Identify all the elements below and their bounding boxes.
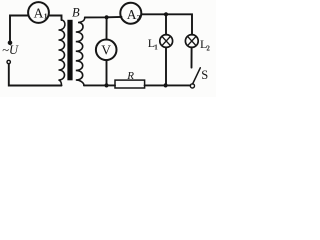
label L1 (148, 36, 159, 51)
label A1 (34, 6, 48, 21)
svg-text:B: B (72, 6, 80, 20)
wire lamp L1 lower lead (165, 47, 167, 85)
wire bottom middle segment from secondary to resistor (84, 84, 115, 86)
transformer primary winding (59, 20, 65, 85)
switch S pivot (190, 84, 194, 88)
voltmeter V (96, 40, 117, 61)
terminal source top (8, 41, 11, 44)
transformer secondary winding (76, 17, 85, 85)
wire lamp L1 upper lead (165, 14, 167, 35)
wire A2 right to corner and down to L2 (141, 14, 192, 35)
wire voltmeter branch lower (106, 60, 108, 85)
svg-text:2: 2 (206, 44, 210, 52)
svg-text:A: A (127, 7, 137, 22)
switch S blade (193, 68, 201, 84)
wire voltmeter branch upper (106, 17, 108, 39)
wire top-left corner from source up and right to A1 (10, 16, 29, 43)
resistor R (115, 80, 145, 88)
lamp L1 (160, 35, 173, 48)
ammeter A1 (28, 2, 49, 23)
node voltmeter-bottom junction (104, 83, 108, 87)
wire A1 to primary top (49, 16, 62, 21)
svg-text:1: 1 (154, 43, 158, 51)
svg-text:2: 2 (137, 13, 141, 22)
svg-text:1: 1 (44, 11, 48, 20)
label A2 (127, 7, 141, 22)
lamp L2 (185, 35, 198, 48)
wire junction node voltmeter tap (105, 15, 109, 19)
ammeter A2 (120, 3, 141, 24)
wire lamp L2 lower lead to switch contact (191, 47, 193, 67)
node lamp L1 bottom junction (164, 83, 168, 87)
transformer core (67, 20, 72, 81)
wire secondary top to A2 (85, 16, 122, 19)
svg-text:A: A (34, 6, 44, 21)
terminal source bottom (7, 60, 10, 63)
label L2 (200, 37, 210, 52)
svg-text:V: V (101, 43, 111, 58)
wire source lower lead and bottom-left return (9, 64, 62, 86)
svg-text:S: S (201, 68, 208, 82)
svg-text:~U: ~U (2, 43, 19, 57)
svg-text:R: R (126, 70, 134, 82)
wire bottom right segment (145, 84, 191, 86)
node lamp L1 top junction (164, 12, 168, 16)
